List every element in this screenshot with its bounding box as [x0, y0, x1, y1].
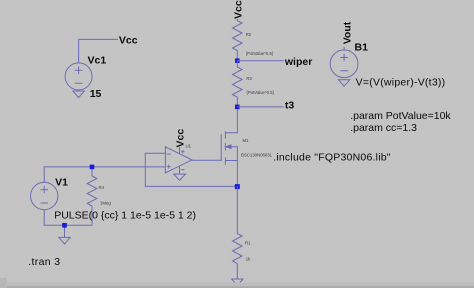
- ground (under V1 rail): [59, 237, 70, 244]
- wire opamp output to gate: [192, 159, 221, 161]
- wire feedback horizontal to source node: [145, 185, 237, 187]
- svg-text:wiper: wiper: [284, 56, 312, 68]
- resistor R3: [233, 61, 243, 107]
- window bottom edge: [0, 283, 474, 287]
- transistor M1: [221, 110, 237, 186]
- wire V1 top to opamp plus input: [44, 166, 165, 168]
- wire opamp minus input: [145, 152, 165, 154]
- wire wiper label: [237, 60, 283, 62]
- behavioral source B1: [330, 47, 358, 77]
- svg-text:PULSE(0 {cc} 1 1e-5 1e-5 1 2): PULSE(0 {cc} 1 1e-5 1e-5 1 2): [54, 209, 196, 221]
- resistor R2: [233, 21, 243, 61]
- svg-text:V=(V(wiper)-V(t3)): V=(V(wiper)-V(t3)): [356, 76, 446, 88]
- wire V1 bottom to R4 bottom: [44, 224, 92, 226]
- ground (under B1): [338, 80, 349, 86]
- ground (under Vc1): [73, 91, 84, 98]
- ground (under R1): [232, 279, 243, 285]
- wire t3 label: [237, 106, 283, 108]
- svg-text:R4: R4: [99, 185, 105, 190]
- svg-text:.tran 3: .tran 3: [28, 256, 60, 268]
- svg-text:.include "FQP30N06.lib": .include "FQP30N06.lib": [273, 151, 391, 163]
- node t3: [235, 105, 240, 110]
- main rail: Vcc flag to R2: [236, 20, 238, 21]
- svg-text:R2: R2: [246, 32, 252, 37]
- wire feedback vertical: [144, 153, 146, 186]
- op-amp U1: [165, 147, 192, 174]
- svg-text:.param cc=1.3: .param cc=1.3: [350, 122, 417, 134]
- wire ground stub under V1: [64, 225, 66, 237]
- svg-text:.param PotValue=10k: .param PotValue=10k: [350, 110, 451, 122]
- svg-text:B1: B1: [355, 42, 369, 54]
- node junction V1/R4: [90, 165, 95, 170]
- resistor R4: [87, 167, 97, 225]
- resistor R1: [233, 234, 243, 280]
- svg-text:{PotValue*0.5}: {PotValue*0.5}: [246, 51, 274, 56]
- svg-text:BSC130N0603L: BSC130N0603L: [241, 153, 273, 158]
- svg-text:t3: t3: [285, 99, 294, 111]
- svg-text:Vout: Vout: [341, 21, 353, 44]
- ground (under op-amp): [174, 174, 186, 180]
- voltage source Vc1: [65, 39, 117, 90]
- svg-text:R3: R3: [246, 76, 252, 81]
- svg-text:U1: U1: [186, 144, 192, 149]
- svg-text:M1: M1: [243, 138, 250, 143]
- wire source to R1: [236, 186, 238, 233]
- svg-text:V1: V1: [55, 177, 68, 189]
- node source junction: [235, 184, 240, 189]
- svg-text:15: 15: [90, 88, 102, 100]
- svg-text:Vc1: Vc1: [88, 55, 107, 67]
- node wiper: [235, 58, 240, 63]
- node junction V1 ground: [62, 223, 67, 228]
- svg-text:1Meg: 1Meg: [100, 201, 111, 206]
- svg-text:R1: R1: [245, 241, 251, 246]
- svg-text:Vcc: Vcc: [232, 0, 244, 19]
- voltage source V1: [31, 167, 58, 225]
- svg-text:Vcc: Vcc: [119, 34, 138, 46]
- svg-text:{PotValue*0.5}: {PotValue*0.5}: [246, 90, 274, 95]
